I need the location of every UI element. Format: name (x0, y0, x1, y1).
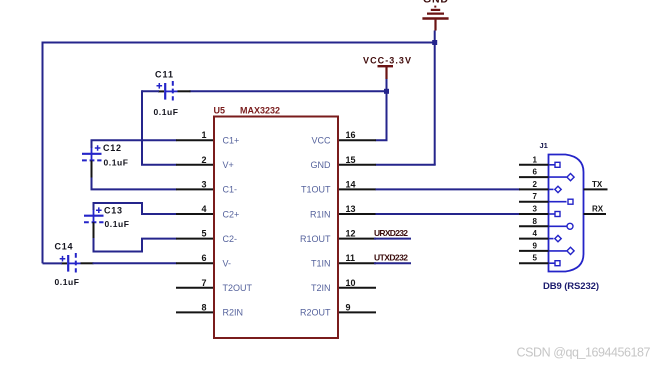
svg-text:15: 15 (346, 155, 356, 165)
wire top horizontal (42, 42, 436, 44)
svg-text:T2IN: T2IN (311, 283, 331, 293)
pin 15 GND (311, 155, 377, 170)
svg-text:16: 16 (346, 130, 356, 140)
svg-text:4: 4 (201, 204, 206, 214)
svg-text:TX: TX (592, 180, 603, 189)
svg-text:0.1uF: 0.1uF (104, 158, 129, 168)
svg-text:9: 9 (346, 302, 351, 312)
svg-text:8: 8 (201, 302, 206, 312)
svg-text:T2OUT: T2OUT (223, 283, 253, 293)
svg-text:6: 6 (201, 253, 206, 263)
wire VCC down to pin16 (376, 91, 387, 140)
wire ground vertical down (434, 43, 436, 165)
pin 5 C2- (176, 229, 237, 244)
pin 16 VCC (311, 130, 376, 145)
net label RX (584, 205, 607, 215)
pin 1 C1+ (176, 130, 239, 145)
svg-text:14: 14 (346, 179, 356, 189)
wire C14 left (43, 262, 63, 264)
svg-text:RX: RX (592, 205, 604, 214)
svg-text:C2+: C2+ (223, 209, 240, 219)
svg-text:8: 8 (533, 217, 538, 226)
capacitor C11 (154, 70, 191, 117)
svg-text:13: 13 (346, 204, 356, 214)
svg-text:0.1uF: 0.1uF (154, 107, 179, 117)
svg-text:MAX3232: MAX3232 (240, 106, 280, 116)
net label URXD232 (374, 228, 411, 239)
svg-text:5: 5 (201, 229, 206, 239)
wire C1+ pin1 bracket (92, 140, 177, 148)
svg-text:C1+: C1+ (223, 136, 240, 146)
svg-text:U5: U5 (214, 106, 226, 116)
connector J1 DB9 (540, 141, 584, 272)
wire left vertical (42, 42, 44, 264)
net label UTXD232 (374, 253, 411, 264)
pin 12 R1OUT (300, 229, 376, 244)
connector pin 2 (519, 180, 561, 193)
svg-text:GND: GND (423, 0, 448, 6)
svg-text:0.1uF: 0.1uF (55, 277, 80, 287)
svg-text:VCC: VCC (311, 136, 331, 146)
wire C1- pin3 bracket (92, 178, 177, 190)
svg-text:UTXD232: UTXD232 (374, 253, 408, 263)
pin 4 C2+ (176, 204, 239, 219)
svg-text:2: 2 (533, 180, 538, 189)
wire T1OUT to DB9 pin2 (376, 188, 521, 190)
svg-text:T1OUT: T1OUT (301, 185, 331, 195)
svg-text:3: 3 (201, 179, 206, 189)
svg-text:GND: GND (311, 160, 332, 170)
svg-text:12: 12 (346, 229, 356, 239)
pin 9 R2OUT (300, 302, 376, 317)
wire GND pin15 row (376, 164, 436, 166)
wire C14 to V- pin6 (93, 262, 177, 264)
connector pin 9 (519, 241, 574, 254)
capacitor C12 (82, 143, 128, 179)
svg-text:R1IN: R1IN (310, 209, 331, 219)
svg-text:V+: V+ (223, 160, 234, 170)
svg-text:3: 3 (533, 205, 538, 214)
svg-text:4: 4 (533, 229, 538, 238)
wire C2- pin5 bracket (94, 238, 177, 252)
connector pin 3 (519, 205, 560, 217)
svg-text:J1: J1 (540, 141, 548, 150)
power VCC-3.3V (363, 55, 411, 79)
svg-text:9: 9 (533, 241, 538, 250)
pin 7 T2OUT (176, 278, 253, 293)
svg-text:C11: C11 (155, 70, 173, 80)
svg-text:R2IN: R2IN (223, 308, 244, 318)
svg-text:C12: C12 (103, 143, 121, 153)
connector pin 6 (519, 168, 574, 181)
svg-text:R2OUT: R2OUT (300, 308, 331, 318)
svg-text:11: 11 (346, 253, 356, 263)
node ground junction (432, 40, 437, 45)
wire C11 left (142, 90, 159, 92)
wire C11 right to VCC junction (190, 90, 387, 92)
ground (422, 0, 448, 31)
pin 2 V+ (176, 155, 234, 170)
connector pin 5 (519, 254, 560, 266)
pin 8 R2IN (176, 302, 243, 317)
pin 13 R1IN (310, 204, 376, 219)
IC U5 MAX3232 (214, 106, 339, 339)
svg-text:C14: C14 (55, 242, 73, 252)
svg-text:7: 7 (533, 192, 538, 201)
wire ground stem to junction (434, 31, 436, 43)
node VCC junction (384, 89, 389, 94)
pin 6 V- (176, 253, 231, 268)
capacitor C14 (55, 242, 94, 288)
capacitor C13 (84, 205, 129, 239)
connector pin 1 (519, 155, 560, 167)
svg-text:C2-: C2- (223, 234, 238, 244)
svg-text:1: 1 (533, 155, 538, 164)
svg-text:DB9 (RS232): DB9 (RS232) (543, 281, 599, 292)
wire VCC stem to junction (386, 79, 388, 91)
svg-text:T1IN: T1IN (311, 259, 331, 269)
svg-text:5: 5 (533, 254, 538, 263)
svg-text:7: 7 (201, 278, 206, 288)
connector pin 4 (519, 229, 561, 242)
svg-text:1: 1 (201, 130, 206, 140)
svg-text:6: 6 (533, 168, 538, 177)
wire C2+ pin4 bracket (94, 203, 177, 214)
pin 3 C1- (176, 179, 237, 194)
pin 14 T1OUT (301, 179, 376, 194)
svg-text:CSDN @qq_1694456187: CSDN @qq_1694456187 (517, 346, 651, 360)
svg-text:URXD232: URXD232 (374, 228, 408, 238)
svg-text:2: 2 (201, 155, 206, 165)
svg-text:VCC-3.3V: VCC-3.3V (363, 55, 411, 65)
connector pin 7 (519, 192, 573, 204)
pin 10 T2IN (311, 278, 376, 293)
wire C11 to V+ pin2 (142, 90, 177, 165)
connector pin 8 (519, 217, 573, 230)
svg-text:R1OUT: R1OUT (300, 234, 331, 244)
svg-text:C13: C13 (104, 205, 122, 215)
wire R1IN to DB9 pin3 (376, 213, 521, 215)
net label TX (584, 180, 608, 189)
pin 11 T1IN (311, 253, 376, 268)
svg-text:V-: V- (223, 259, 232, 269)
svg-text:0.1uF: 0.1uF (105, 219, 130, 229)
svg-text:C1-: C1- (223, 185, 238, 195)
svg-text:10: 10 (346, 278, 356, 288)
